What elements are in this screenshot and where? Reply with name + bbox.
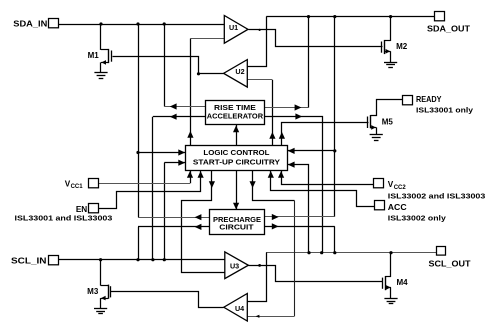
svg-text:SCL_OUT: SCL_OUT bbox=[429, 259, 471, 268]
svg-text:ISL33002 and ISL33003: ISL33002 and ISL33003 bbox=[388, 192, 486, 201]
svg-text:READY: READY bbox=[416, 95, 442, 104]
svg-text:ISL33001 only: ISL33001 only bbox=[416, 105, 474, 114]
svg-text:M5: M5 bbox=[382, 117, 394, 126]
svg-text:ACCELERATOR: ACCELERATOR bbox=[207, 111, 264, 120]
svg-text:M4: M4 bbox=[397, 278, 409, 287]
svg-text:START-UP CIRCUITRY: START-UP CIRCUITRY bbox=[193, 157, 280, 166]
svg-text:U1: U1 bbox=[229, 23, 238, 32]
svg-text:CIRCUIT: CIRCUIT bbox=[219, 222, 254, 231]
svg-text:ISL33001 and ISL33003: ISL33001 and ISL33003 bbox=[15, 214, 113, 223]
svg-text:SCL_IN: SCL_IN bbox=[11, 256, 47, 265]
svg-text:U2: U2 bbox=[235, 67, 244, 76]
svg-text:M2: M2 bbox=[396, 42, 408, 51]
svg-text:CC2: CC2 bbox=[394, 185, 407, 191]
svg-text:CC1: CC1 bbox=[71, 184, 84, 190]
svg-text:LOGIC CONTROL: LOGIC CONTROL bbox=[203, 148, 269, 157]
svg-text:M3: M3 bbox=[87, 287, 99, 296]
svg-text:U4: U4 bbox=[235, 304, 244, 313]
svg-text:SDA_OUT: SDA_OUT bbox=[427, 25, 470, 34]
svg-text:ISL33002 only: ISL33002 only bbox=[388, 213, 447, 222]
svg-text:ACC: ACC bbox=[388, 203, 407, 212]
svg-text:U3: U3 bbox=[230, 261, 239, 270]
svg-text:M1: M1 bbox=[88, 51, 100, 60]
svg-text:SDA_IN: SDA_IN bbox=[13, 20, 47, 29]
